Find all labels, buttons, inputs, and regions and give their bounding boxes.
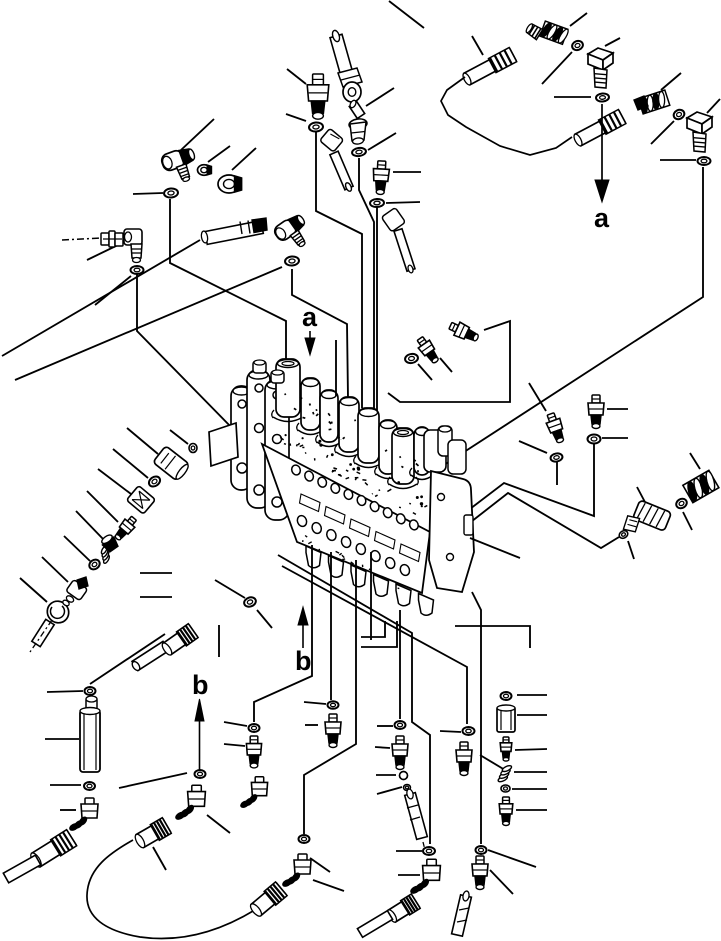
wire route diag1 <box>278 555 430 844</box>
spring <box>497 764 512 782</box>
o-ring <box>84 782 95 790</box>
straight fitting <box>392 736 408 770</box>
wire route to block port <box>376 207 378 418</box>
leader line <box>366 88 394 106</box>
leader line <box>95 276 131 305</box>
hose tube <box>330 29 355 83</box>
tapered fitting <box>112 514 139 543</box>
o-ring <box>588 435 601 444</box>
hose ferrule <box>386 894 421 924</box>
o-ring <box>476 846 487 854</box>
o-ring <box>243 596 257 609</box>
wire route to block port <box>359 158 374 414</box>
square head plug 2 <box>687 112 712 152</box>
wire stub <box>361 621 397 647</box>
spring <box>95 544 115 565</box>
elbow fitting <box>124 229 142 263</box>
o-ring <box>352 147 367 157</box>
wire route V3 <box>304 560 356 834</box>
leader line <box>488 850 536 867</box>
small ring <box>404 785 411 791</box>
svg-text:b: b <box>295 646 312 676</box>
hose ferrule <box>160 624 198 657</box>
hose ferrule loop left <box>133 818 171 849</box>
straight fitting with washers <box>101 231 123 247</box>
dashed tube <box>405 788 428 854</box>
accumulator cylinder <box>80 708 100 773</box>
leader line <box>47 691 83 692</box>
elbow fitting banded large <box>682 469 721 504</box>
leader line <box>472 36 483 55</box>
leader line <box>660 159 696 161</box>
leader line <box>377 725 393 727</box>
leader line <box>76 511 104 540</box>
valve block feet <box>306 546 434 615</box>
leader line <box>707 99 720 113</box>
small ring <box>501 785 510 792</box>
straight fitting <box>325 714 341 748</box>
o-ring <box>147 474 162 488</box>
leader line <box>87 244 120 260</box>
leader line horizontal <box>140 596 172 598</box>
fitting angled 3 <box>544 412 568 445</box>
leader line <box>181 119 214 150</box>
adapter large <box>153 446 191 482</box>
leader line <box>517 694 547 696</box>
o-ring <box>404 353 418 364</box>
wire into block top <box>335 340 337 396</box>
leader line long <box>15 267 282 380</box>
leader line <box>519 441 547 453</box>
leader line horizontal <box>140 572 172 574</box>
leader line <box>286 114 306 121</box>
tapered fitting <box>500 737 512 761</box>
elbow fitting <box>282 854 311 888</box>
arrow up b2 <box>298 607 308 648</box>
svg-text:b: b <box>192 670 209 700</box>
elbow fitting <box>160 145 202 187</box>
elbow fitting <box>175 785 206 820</box>
leader line <box>60 809 76 811</box>
nipple <box>349 99 365 118</box>
label a with arrow <box>302 302 318 355</box>
fitting angled <box>414 335 441 366</box>
o-ring <box>674 497 688 510</box>
o-ring <box>299 835 310 843</box>
hose ferrule head <box>338 68 362 102</box>
leader stub <box>218 625 220 657</box>
arrow down <box>595 104 609 202</box>
straight fitting <box>372 161 390 195</box>
wire route Y <box>466 444 594 516</box>
hose tube <box>3 855 40 883</box>
leader line <box>440 358 452 372</box>
straight fitting <box>499 797 513 826</box>
leader line <box>368 133 396 150</box>
o-ring <box>672 108 686 121</box>
leader line <box>490 870 513 894</box>
cylinder fitting <box>126 486 155 515</box>
leader line <box>628 541 634 559</box>
leader line <box>516 809 547 811</box>
valve block port holes <box>290 464 419 577</box>
valve block body <box>262 444 430 593</box>
ribbed cylinder valve <box>622 500 671 534</box>
o-ring <box>370 199 384 208</box>
leader line long <box>2 240 200 356</box>
leader line <box>375 747 390 748</box>
leader line <box>376 774 396 776</box>
mounting plate <box>209 423 238 466</box>
label b <box>192 670 209 700</box>
dark fitting <box>100 533 120 553</box>
o-ring <box>85 687 96 695</box>
wire stub L <box>455 626 530 648</box>
straight fitting <box>246 736 261 768</box>
dashed tube <box>452 891 472 937</box>
o-ring <box>249 724 260 732</box>
leader line <box>133 193 163 194</box>
fitting with collar <box>348 118 367 145</box>
valve block right top <box>424 426 466 474</box>
square head plug <box>588 48 613 88</box>
wire route X <box>467 493 619 548</box>
leader line <box>480 755 505 770</box>
wire stub <box>556 462 558 485</box>
straight fitting <box>307 74 329 119</box>
wire route V2 <box>330 552 332 700</box>
hose ferrule <box>29 830 77 869</box>
arrow up b <box>195 699 204 778</box>
leader line <box>304 702 326 704</box>
leader line <box>45 738 79 740</box>
leader line <box>651 121 674 144</box>
leader line <box>418 364 432 380</box>
wire route vertical <box>444 167 703 465</box>
o-ring <box>596 93 610 102</box>
leader line <box>87 491 118 522</box>
adapter cylinder <box>201 218 267 244</box>
hose ferrule <box>461 48 516 87</box>
o-ring <box>571 39 584 51</box>
o-ring <box>698 157 711 165</box>
wire route V5 <box>399 610 401 719</box>
wire route <box>90 634 165 684</box>
leader line <box>313 880 344 891</box>
leader line <box>310 858 330 872</box>
leader to block <box>470 538 520 558</box>
o-ring <box>550 453 563 463</box>
leader line <box>570 13 587 26</box>
leader line <box>396 850 422 852</box>
hose ferrule 2 <box>572 110 626 148</box>
leader line <box>637 487 646 504</box>
leader line <box>605 38 620 46</box>
o-ring <box>164 188 179 198</box>
hex nut small <box>198 165 212 176</box>
fitting angled 2 <box>447 319 480 345</box>
leader line <box>208 146 230 162</box>
wire route from elbow ring to block <box>170 199 286 367</box>
elbow fitting small <box>524 21 570 46</box>
hose loop <box>441 77 572 155</box>
leader line <box>64 536 90 561</box>
leader line <box>170 430 188 444</box>
wire route to block <box>388 321 510 402</box>
wire route V4 <box>370 552 372 640</box>
cap <box>86 696 97 710</box>
o-ring <box>87 558 101 572</box>
leader line <box>113 449 148 478</box>
wire route from o-ring to block plate <box>137 274 234 430</box>
o-ring small <box>189 444 197 453</box>
valve block left sections <box>231 370 289 520</box>
leader line <box>514 771 547 773</box>
elbow fitting <box>410 859 441 894</box>
hose loop bottom <box>87 840 258 938</box>
elbow fitting small <box>62 577 88 607</box>
wire route to block port <box>316 131 362 408</box>
o-ring <box>395 721 406 729</box>
leader line <box>529 383 546 411</box>
adapter and pipe into block <box>381 207 415 273</box>
svg-text:a: a <box>594 203 610 233</box>
leader line <box>98 469 131 494</box>
small ring <box>618 529 629 540</box>
leader line <box>257 610 272 628</box>
leader line <box>207 815 230 833</box>
o-ring <box>463 727 475 735</box>
hex nut large <box>218 175 242 193</box>
shading marks <box>280 394 427 589</box>
pipe tube <box>330 151 353 192</box>
leader line <box>386 202 420 203</box>
dash-dot pipe <box>62 238 101 240</box>
o-ring <box>423 847 435 855</box>
leader line <box>683 512 692 530</box>
leader line <box>393 171 421 173</box>
leader line <box>153 847 166 870</box>
leader line <box>512 788 547 790</box>
slab knobs <box>253 360 284 383</box>
leader line <box>224 722 247 726</box>
o-ring <box>328 701 339 709</box>
hose end eye <box>30 597 73 652</box>
leader line <box>607 408 628 410</box>
leader line <box>661 73 681 90</box>
leader line <box>690 453 700 469</box>
leader line <box>119 773 187 788</box>
leader line <box>20 578 47 602</box>
o-ring <box>309 122 324 132</box>
wire route V8 <box>472 592 481 844</box>
ball <box>400 772 408 780</box>
wire route diag2 <box>282 566 467 724</box>
elbow fitting <box>272 212 315 255</box>
leader line <box>517 714 547 716</box>
leader line <box>602 437 628 439</box>
wire stub <box>361 621 385 637</box>
hose ferrule loop right <box>249 882 288 918</box>
o-ring <box>285 256 300 266</box>
spool covers <box>300 494 421 562</box>
leader line <box>42 557 68 582</box>
o-ring <box>501 692 512 700</box>
leader line <box>224 744 245 746</box>
valve block end plate <box>429 471 474 592</box>
leader line <box>50 784 81 786</box>
leader line <box>554 96 591 98</box>
elbow fitting <box>240 777 268 809</box>
wire into block top 2 <box>292 269 348 398</box>
elbow fitting <box>69 798 98 832</box>
wire to ring <box>215 580 245 598</box>
elbow fitting banded <box>634 90 670 115</box>
wire route V1 <box>254 545 312 722</box>
leader line <box>542 52 572 84</box>
leader line <box>389 1 424 28</box>
leader line <box>515 749 547 750</box>
hose tube <box>357 911 392 938</box>
label b 2 <box>295 646 312 676</box>
straight fitting <box>588 395 604 429</box>
valve block caps row <box>272 359 435 489</box>
plug fitting <box>497 705 515 732</box>
leader line <box>232 148 256 170</box>
tube short <box>131 641 169 671</box>
adapter elbow <box>320 128 344 152</box>
label a <box>594 203 610 233</box>
leader line <box>287 69 306 84</box>
leader line <box>305 724 318 726</box>
leader line <box>377 787 402 794</box>
leader line <box>440 731 461 732</box>
straight fitting <box>472 856 488 890</box>
o-ring <box>131 266 144 274</box>
straight fitting <box>456 742 472 776</box>
o-ring <box>195 770 206 778</box>
leader line <box>398 874 420 876</box>
leader line <box>127 428 158 454</box>
